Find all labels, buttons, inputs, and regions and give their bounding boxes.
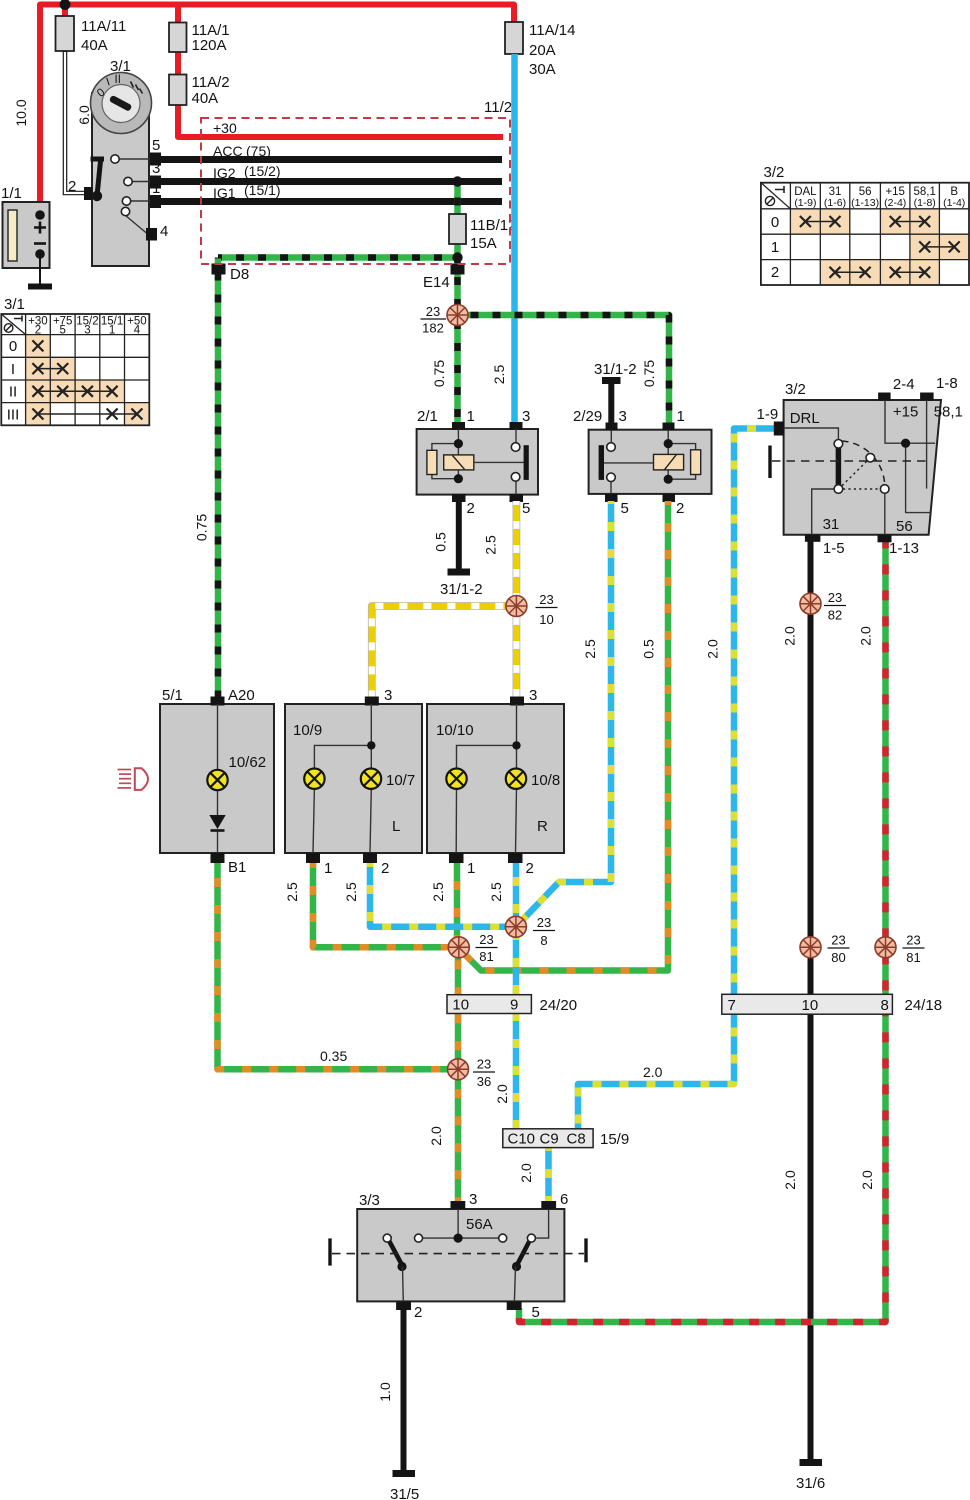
svg-text:31/1-2: 31/1-2 xyxy=(440,581,483,598)
svg-text:3: 3 xyxy=(152,160,160,177)
wire green/orange splice 23/81 down through 24/20 pin 10 to splice 23/36 xyxy=(455,947,462,1069)
fuse 11B/12 xyxy=(449,214,516,252)
svg-text:(1-13): (1-13) xyxy=(851,197,879,209)
ground 31/1-2 below relay 2/1 xyxy=(440,572,483,598)
svg-text:I: I xyxy=(11,361,15,378)
svg-text:1: 1 xyxy=(677,408,685,425)
svg-text:0.5: 0.5 xyxy=(433,532,449,552)
label 0.5 relay 2/1 pin 2 xyxy=(433,532,449,552)
splice 23/81 right xyxy=(875,933,925,966)
svg-text:10/10: 10/10 xyxy=(436,722,474,739)
svg-text:2/1: 2/1 xyxy=(417,408,438,425)
svg-text:4: 4 xyxy=(160,223,168,240)
wire blue/yellow DRL from switch 3/2 pin 1-9 through 24/18 pin 7 to connector C8 xyxy=(578,429,775,1131)
wire green/black IG2 to fuse 11B/12 to E14 to splice 23/182 to relay 2/1 pin 1 xyxy=(454,182,461,424)
svg-text:11A/11: 11A/11 xyxy=(81,18,126,35)
connector 24/18 xyxy=(722,994,942,1014)
svg-text:8: 8 xyxy=(881,997,889,1014)
svg-text:(2-4): (2-4) xyxy=(884,197,906,209)
svg-text:31/5: 31/5 xyxy=(390,1486,419,1500)
svg-text:C9: C9 xyxy=(540,1131,559,1148)
splice 23/36 xyxy=(448,1057,496,1090)
splice 23/80 xyxy=(800,933,850,966)
svg-text:2.5: 2.5 xyxy=(488,882,504,902)
wire green/orange relay 2/29 pin 2 to splice 23/81 xyxy=(464,501,668,971)
svg-text:10.0: 10.0 xyxy=(13,99,29,126)
svg-text:L: L xyxy=(392,818,400,835)
svg-text:2: 2 xyxy=(381,860,389,877)
wire green/orange lamp 10/9 pin 1 to splice 23/81 xyxy=(313,863,459,947)
svg-text:1-9: 1-9 xyxy=(757,406,779,423)
svg-text:1: 1 xyxy=(771,239,779,256)
svg-text:R: R xyxy=(537,818,548,835)
node junction IG2 xyxy=(452,176,462,186)
fuse 11A/14 xyxy=(505,22,575,78)
label 0.75 left wire xyxy=(194,514,210,541)
svg-text:IG2: IG2 xyxy=(213,165,236,181)
svg-text:10: 10 xyxy=(539,612,553,627)
splice 23/82 xyxy=(800,590,846,623)
svg-text:5: 5 xyxy=(59,325,65,337)
svg-text:C8: C8 xyxy=(567,1131,586,1148)
label 10.0 xyxy=(13,99,29,126)
label 2.5 blue wire xyxy=(491,365,507,385)
svg-text:2: 2 xyxy=(414,1304,422,1321)
lamp 10/10 bulb left xyxy=(446,769,466,789)
svg-text:2/29: 2/29 xyxy=(573,408,602,425)
svg-text:82: 82 xyxy=(828,608,842,623)
label 0.5 green/orange 2/29 pin 2 xyxy=(641,639,657,659)
svg-text:15A: 15A xyxy=(470,235,497,252)
svg-text:8: 8 xyxy=(540,933,547,948)
svg-text:IG1: IG1 xyxy=(213,185,236,201)
svg-text:5: 5 xyxy=(522,500,530,517)
svg-text:15/9: 15/9 xyxy=(600,1131,629,1148)
svg-text:II: II xyxy=(115,74,121,86)
wire blue fuse 11A/14 to relay 2/1 pin 3 xyxy=(511,54,518,423)
svg-text:56: 56 xyxy=(896,518,913,535)
svg-text:E14: E14 xyxy=(423,274,450,291)
svg-text:24/20: 24/20 xyxy=(540,997,578,1014)
svg-text:3/2: 3/2 xyxy=(785,381,806,398)
connector E14 xyxy=(423,264,465,292)
label 2.0 DRL wire xyxy=(705,639,721,659)
svg-text:3: 3 xyxy=(84,325,90,337)
svg-text:56A: 56A xyxy=(466,1216,493,1233)
wire green/orange splice 23/36 to switch 3/3 pin 3 xyxy=(455,1069,462,1202)
lamp 10/7 xyxy=(361,769,381,789)
svg-text:10/7: 10/7 xyxy=(386,772,415,789)
splice 23/81 left xyxy=(448,932,497,964)
ground 31/6 xyxy=(796,1463,825,1493)
svg-text:30A: 30A xyxy=(529,61,556,78)
wire yellow/white relay 2/1 pin 5 to splice 23/10 to lamps pin 3 xyxy=(372,501,517,700)
wire blue/yellow relay 2/29 pin 5 to splice 23/8 xyxy=(522,501,612,921)
svg-text:23: 23 xyxy=(537,915,551,930)
svg-text:11A/14: 11A/14 xyxy=(529,22,575,39)
svg-text:2.5: 2.5 xyxy=(430,882,446,902)
label 2.0 green/red upper xyxy=(858,626,874,646)
svg-text:3: 3 xyxy=(522,408,530,425)
label 2.0 C9 wire xyxy=(518,1163,534,1183)
lamp 10/9 bulb left xyxy=(304,769,324,789)
label 2.5 under 10/9 pin 2 xyxy=(343,882,359,902)
wire green/black splice 23/182 branch to relay 2/29 pin 1 xyxy=(458,315,670,424)
svg-text:182: 182 xyxy=(422,321,444,336)
ground 31/5 xyxy=(390,1474,419,1500)
wire black switch 3/3 pin 2 to ground 31/5 xyxy=(401,1310,407,1472)
lamp unit 10/10 right xyxy=(427,687,564,877)
label 2.5 blue/yellow 2/29 pin 5 xyxy=(582,639,598,659)
svg-text:(15/1): (15/1) xyxy=(244,182,281,198)
wire white 6.0 from fuse 11A/11 to ignition pin 2 xyxy=(65,51,85,193)
svg-text:2-4: 2-4 xyxy=(893,376,915,393)
svg-text:3: 3 xyxy=(619,408,627,425)
svg-text:ACC: ACC xyxy=(213,143,243,159)
svg-text:4: 4 xyxy=(134,325,141,337)
wire green/black D8 to E14 xyxy=(218,254,458,261)
label 2.0 below 23/36 xyxy=(428,1126,444,1146)
svg-text:(1-8): (1-8) xyxy=(914,197,936,209)
svg-text:23: 23 xyxy=(479,932,493,947)
svg-text:0: 0 xyxy=(9,338,17,355)
wire black switch 3/2 pin 31 down to ground 31/6 xyxy=(808,541,814,1460)
svg-text:(15/2): (15/2) xyxy=(244,163,281,179)
svg-text:0.5: 0.5 xyxy=(641,639,657,659)
component box 11/2 dashed outline xyxy=(201,99,512,264)
svg-text:III: III xyxy=(7,407,20,424)
svg-text:23: 23 xyxy=(831,933,845,948)
splice 23/182 xyxy=(421,304,469,336)
svg-text:D8: D8 xyxy=(230,266,249,283)
wire battery minus to ground xyxy=(39,258,41,284)
svg-text:31/1-2: 31/1-2 xyxy=(594,361,637,378)
ignition switch 3/1 xyxy=(68,58,168,266)
svg-text:10: 10 xyxy=(802,997,819,1014)
svg-text:2.0: 2.0 xyxy=(858,626,874,646)
lamp unit 10/9 left xyxy=(285,687,422,877)
svg-text:23: 23 xyxy=(477,1057,491,1072)
icon headlight beam xyxy=(118,768,149,790)
svg-text:10/8: 10/8 xyxy=(531,772,560,789)
svg-text:II: II xyxy=(9,384,17,401)
label 2.0 black wire lower xyxy=(782,1170,798,1190)
wire red battery feed top bus xyxy=(40,5,514,211)
wire green/black D8 down to headlamp 5/1 pin A20 xyxy=(215,258,222,701)
svg-text:2.0: 2.0 xyxy=(859,1170,875,1190)
svg-text:23: 23 xyxy=(828,590,842,605)
svg-text:2.0: 2.0 xyxy=(428,1126,444,1146)
fuse 11A/2 xyxy=(169,74,230,107)
svg-text:10/62: 10/62 xyxy=(229,754,267,771)
label 2.0 above C8 run xyxy=(643,1064,663,1080)
svg-text:3/3: 3/3 xyxy=(359,1192,380,1209)
svg-text:B1: B1 xyxy=(228,859,246,876)
svg-text:31: 31 xyxy=(823,516,840,533)
label 2.5 under 10/10 pin 2 xyxy=(488,882,504,902)
svg-text:1: 1 xyxy=(324,860,332,877)
relay 2/1 xyxy=(417,408,538,517)
svg-text:2.0: 2.0 xyxy=(494,1084,510,1104)
svg-text:2.0: 2.0 xyxy=(705,639,721,659)
svg-text:3/1: 3/1 xyxy=(4,296,25,313)
table 3/2 light switch positions xyxy=(761,164,969,285)
svg-text:40A: 40A xyxy=(192,90,219,107)
svg-text:DRL: DRL xyxy=(790,410,820,427)
svg-text:5: 5 xyxy=(532,1304,540,1321)
svg-text:7: 7 xyxy=(728,997,736,1014)
wire red branch through fuses 11A/1 11A/2 to +30 xyxy=(178,5,503,138)
svg-text:3: 3 xyxy=(384,687,392,704)
label 2.0 green/red lower xyxy=(859,1170,875,1190)
wire black relay 2/1 pin 2 to ground xyxy=(456,501,462,569)
svg-text:31/6: 31/6 xyxy=(796,1475,825,1492)
svg-text:(75): (75) xyxy=(246,143,271,159)
svg-text:0: 0 xyxy=(771,214,779,231)
light switch 3/2 xyxy=(757,375,963,557)
svg-text:1: 1 xyxy=(109,325,115,337)
svg-text:120A: 120A xyxy=(192,37,227,54)
svg-text:24/18: 24/18 xyxy=(905,997,943,1014)
svg-text:3/2: 3/2 xyxy=(764,164,785,181)
svg-text:10/9: 10/9 xyxy=(293,722,322,739)
relay 2/29 xyxy=(573,408,712,517)
svg-text:2: 2 xyxy=(526,860,534,877)
splice 23/10 xyxy=(506,592,558,627)
svg-text:2.0: 2.0 xyxy=(782,626,798,646)
svg-text:5: 5 xyxy=(152,137,160,154)
svg-text:3: 3 xyxy=(469,1191,477,1208)
svg-text:C10: C10 xyxy=(508,1131,536,1148)
svg-text:58,1: 58,1 xyxy=(934,404,963,421)
svg-text:2.0: 2.0 xyxy=(643,1064,663,1080)
node junction E14 xyxy=(452,252,462,262)
headlamp unit 5/1 xyxy=(160,687,274,876)
svg-text:2.0: 2.0 xyxy=(518,1163,534,1183)
svg-text:0.35: 0.35 xyxy=(320,1048,347,1064)
wire red branch to fuse 11A/11 xyxy=(62,5,68,18)
svg-text:1.0: 1.0 xyxy=(377,1382,393,1402)
switch 3/3 xyxy=(330,1191,586,1321)
wire green/orange lamp 10/10 pin 1 to splice 23/81 xyxy=(454,863,461,947)
label 1.0 xyxy=(377,1382,393,1402)
svg-text:5: 5 xyxy=(621,500,629,517)
label 0.75 relay 2/1 coil wire xyxy=(431,360,447,387)
splice 23/8 xyxy=(505,915,555,948)
svg-text:2: 2 xyxy=(35,325,41,337)
svg-text:+15: +15 xyxy=(893,404,918,421)
svg-text:1-5: 1-5 xyxy=(823,540,845,557)
fuse 11A/1 xyxy=(169,22,230,54)
svg-text:11A/2: 11A/2 xyxy=(192,74,230,91)
svg-text:1/1: 1/1 xyxy=(1,185,22,202)
label 0.75 relay 2/29 coil wire xyxy=(641,360,657,387)
wire black IG2 xyxy=(161,163,502,182)
svg-text:2: 2 xyxy=(771,264,779,281)
svg-text:20A: 20A xyxy=(529,42,556,59)
svg-text:1-13: 1-13 xyxy=(889,540,919,557)
wire black ACC xyxy=(161,143,502,160)
svg-text:23: 23 xyxy=(426,304,440,319)
wire blue/yellow lamp 10/9 pin 2 to splice 23/8 xyxy=(370,863,516,927)
svg-text:0.75: 0.75 xyxy=(431,360,447,387)
svg-text:2.5: 2.5 xyxy=(483,535,499,555)
connector 15/9 xyxy=(503,1129,629,1148)
ground battery xyxy=(28,284,52,290)
svg-text:23: 23 xyxy=(906,933,920,948)
svg-text:2.5: 2.5 xyxy=(343,882,359,902)
svg-text:A20: A20 xyxy=(228,687,255,704)
svg-text:1-8: 1-8 xyxy=(936,375,958,392)
svg-text:80: 80 xyxy=(831,950,845,965)
svg-text:36: 36 xyxy=(477,1074,491,1089)
svg-text:2.5: 2.5 xyxy=(582,639,598,659)
label 2.0 splice 23/8 down wire xyxy=(494,1084,510,1104)
label +30 xyxy=(213,120,237,136)
svg-text:81: 81 xyxy=(906,950,920,965)
connector 24/20 xyxy=(447,995,577,1014)
ground 31/1-2 above relay 2/29 xyxy=(594,361,637,425)
svg-text:2: 2 xyxy=(676,500,684,517)
node junction top bus xyxy=(60,0,71,10)
svg-text:11/2: 11/2 xyxy=(484,99,512,116)
label 2.5 under 10/9 pin 1 xyxy=(284,882,300,902)
svg-text:6: 6 xyxy=(560,1191,568,1208)
svg-text:2: 2 xyxy=(467,500,475,517)
svg-text:9: 9 xyxy=(510,997,518,1014)
svg-text:40A: 40A xyxy=(81,37,108,54)
svg-text:(1-6): (1-6) xyxy=(824,197,846,209)
connector D8 xyxy=(212,264,250,284)
label 2.5 under 10/10 pin 1 xyxy=(430,882,446,902)
wire green/orange B1 to splice 23/36 xyxy=(218,863,459,1069)
svg-text:23: 23 xyxy=(539,592,553,607)
svg-text:0.75: 0.75 xyxy=(194,514,210,541)
svg-text:10: 10 xyxy=(452,997,469,1014)
wire blue/yellow connector C9 to switch 3/3 pin 6 xyxy=(545,1146,552,1202)
svg-text:2.5: 2.5 xyxy=(491,365,507,385)
svg-text:(1-4): (1-4) xyxy=(943,197,965,209)
svg-text:+30: +30 xyxy=(213,120,237,136)
label 0.35 xyxy=(320,1048,347,1064)
wire black IG1 xyxy=(161,182,502,202)
svg-text:1: 1 xyxy=(467,408,475,425)
wire green/red switch 3/2 pin 56 down and across to switch 3/3 pin 5 xyxy=(519,541,886,1322)
lamp 10/8 xyxy=(506,769,526,789)
fuse 11A/11 xyxy=(56,16,127,54)
svg-text:1: 1 xyxy=(467,860,475,877)
table 3/1 ignition switch positions xyxy=(1,296,149,425)
svg-text:81: 81 xyxy=(479,949,493,964)
svg-text:1: 1 xyxy=(152,180,160,197)
svg-text:2: 2 xyxy=(68,178,76,195)
svg-text:3: 3 xyxy=(529,687,537,704)
svg-text:0.75: 0.75 xyxy=(641,360,657,387)
svg-text:(1-9): (1-9) xyxy=(794,197,816,209)
label 2.0 black wire upper xyxy=(782,626,798,646)
label 2.5 yellow wire xyxy=(483,535,499,555)
label 6.0 xyxy=(76,105,92,125)
battery 1/1 xyxy=(1,185,50,268)
svg-text:2.0: 2.0 xyxy=(782,1170,798,1190)
wire blue/yellow lamp 10/10 pin 2 to splice 23/8 down to connector C10 xyxy=(513,863,520,1130)
svg-text:6.0: 6.0 xyxy=(76,105,92,125)
lamp 10/62 xyxy=(207,770,227,790)
svg-text:2.5: 2.5 xyxy=(284,882,300,902)
svg-text:5/1: 5/1 xyxy=(162,687,183,704)
